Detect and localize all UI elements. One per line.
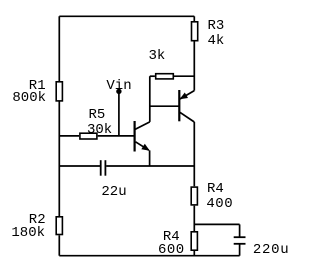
node Vin input dot [116, 89, 121, 94]
label R2 [29, 213, 46, 227]
transistor Q1 base bar [134, 121, 136, 152]
wire base line from rail to R5 [59, 135, 79, 137]
wire left rail lower segment [58, 235, 60, 255]
wire 220u top stem [239, 224, 241, 237]
transistor Q1 emitter arrow (NPN, points out) [141, 144, 150, 151]
wire top rail [59, 15, 194, 17]
wire Vin stub [118, 92, 120, 136]
label 3k [149, 49, 166, 63]
resistor R2 [56, 217, 62, 235]
transistor Q1 emitter diagonal [136, 142, 149, 150]
label 22u [101, 185, 126, 199]
label 400 [206, 197, 233, 211]
wire R5 to Q1 base [98, 135, 135, 137]
label 30k [87, 123, 112, 137]
wire R4-600 to bottom rail [193, 251, 195, 256]
transistor Q1 collector diagonal [135, 122, 150, 130]
wire 3k right lead [174, 75, 194, 77]
label R1 [29, 79, 46, 93]
resistor 3k [156, 74, 174, 79]
resistor R3 [192, 22, 198, 41]
transistor Q2 base bar [178, 90, 180, 121]
wire right vertical from top rail to R3 [193, 16, 195, 21]
wire branch to 220u [194, 223, 239, 225]
wire mid feedback line left of 22u [59, 165, 100, 167]
label Vin [106, 79, 131, 93]
resistor R1 [56, 82, 62, 101]
wire Q1 collector vertical to 3k node [149, 76, 151, 122]
transistor Q2 collector diagonal [180, 112, 194, 122]
label R4 (lower) [163, 230, 180, 244]
label 4k [208, 34, 225, 48]
wire 220u bottom stem [239, 244, 241, 256]
label R3 [208, 19, 225, 33]
capacitor 22u right plate [104, 160, 106, 176]
label R5 [89, 108, 106, 122]
capacitor 22u left plate [100, 160, 102, 176]
transistor Q2 emitter diagonal [180, 91, 194, 99]
wire left rail upper segment [58, 16, 60, 81]
capacitor 220u bottom plate [234, 243, 246, 245]
wire R4 to R4-600 [193, 206, 195, 231]
wire mid feedback line right of 22u [106, 165, 194, 167]
capacitor 220u top plate [234, 236, 246, 238]
label 180k [11, 226, 45, 240]
transistor Q2 emitter arrow (PNP, points into base) [180, 93, 189, 100]
label 600 [158, 243, 185, 257]
resistor R5 [80, 133, 97, 139]
wire R3 bottom to Q2 emitter [193, 42, 195, 91]
label 220u [253, 243, 289, 257]
wire left rail middle segment [58, 101, 60, 216]
label R4 (upper) [207, 182, 224, 196]
wire Q1 emitter stub [149, 150, 151, 166]
label 800k [12, 91, 46, 105]
wire 3k left lead [150, 75, 155, 77]
wire bottom rail [59, 255, 239, 257]
wire Q2 collector down to R4 [193, 122, 195, 186]
resistor R4 400 [191, 187, 197, 205]
resistor R4 600 [191, 232, 197, 250]
wire Q2 base line [150, 105, 180, 107]
